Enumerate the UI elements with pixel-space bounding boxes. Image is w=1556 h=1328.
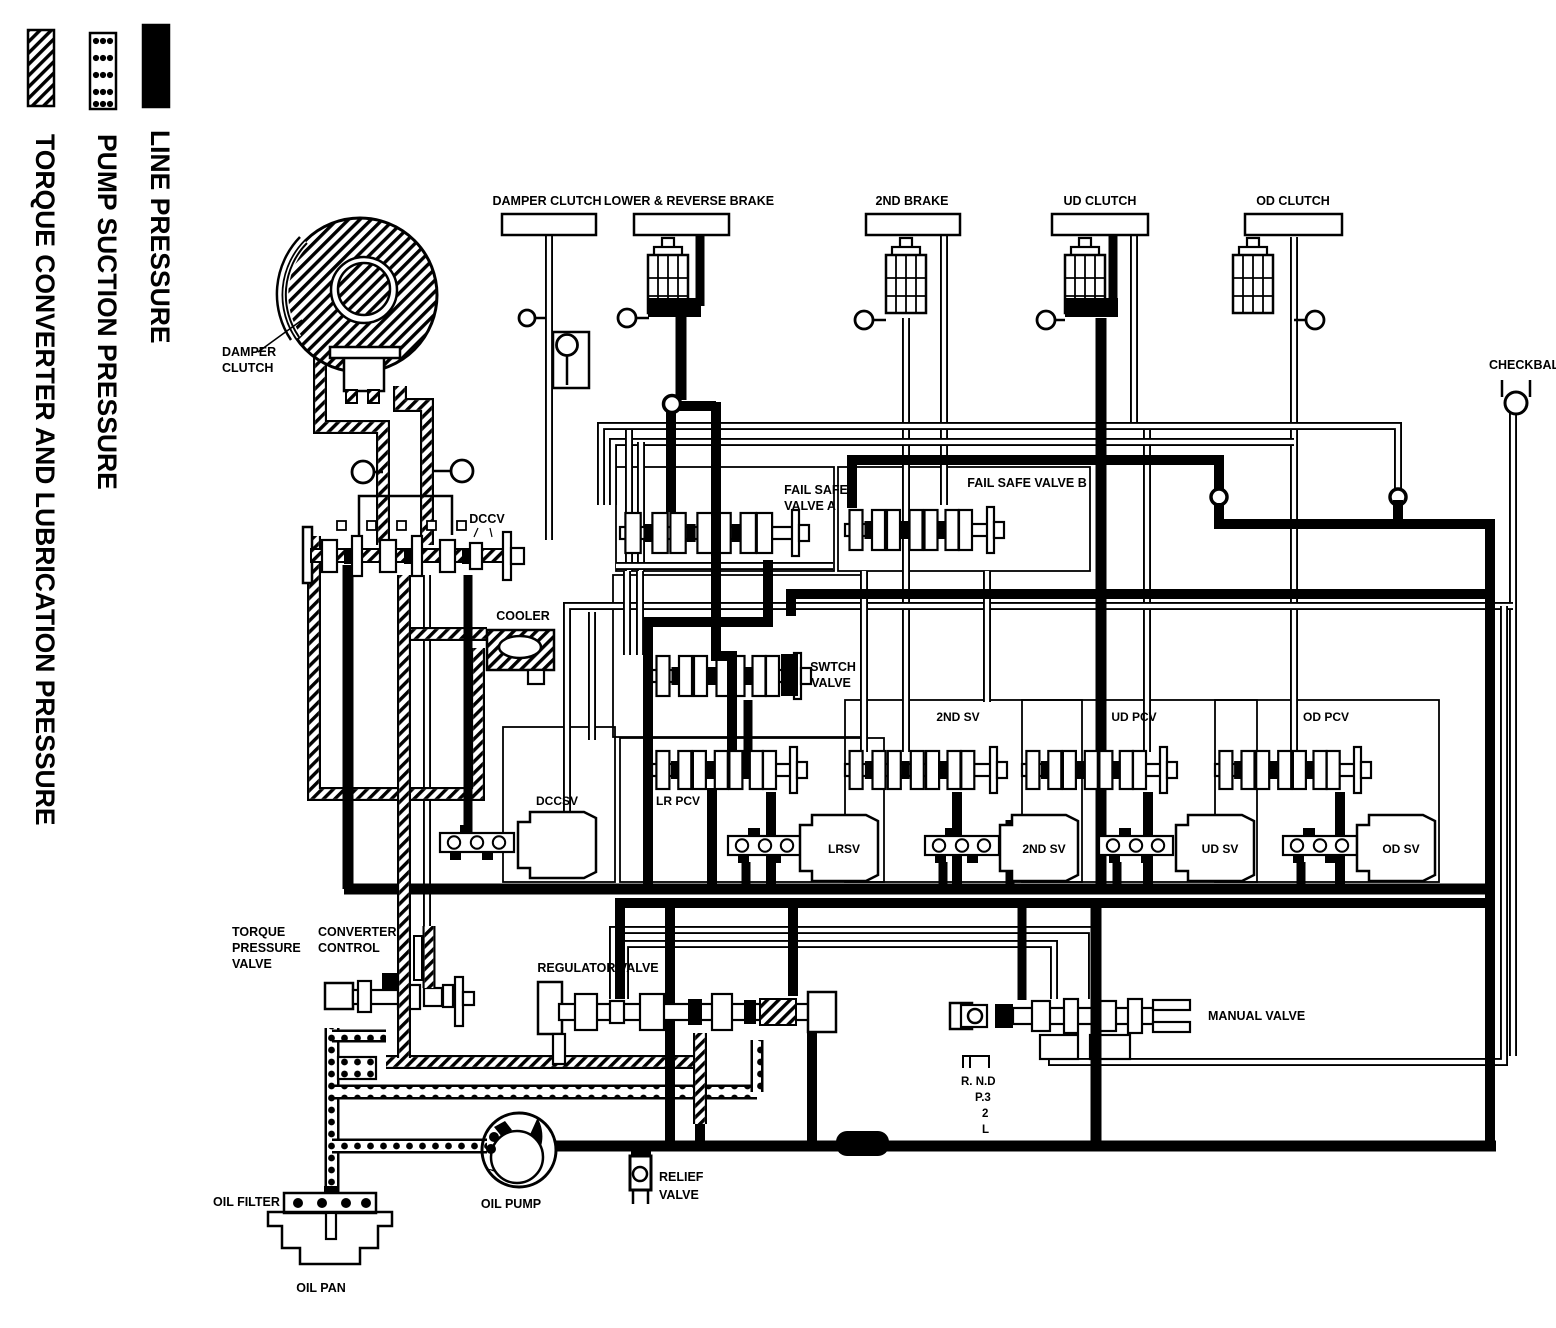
svg-text:SWTCH: SWTCH bbox=[810, 660, 856, 674]
2nd brake box branch pipe bbox=[940, 235, 948, 505]
oil filter bbox=[284, 1186, 376, 1239]
lube pipe to oil pump line bbox=[386, 1055, 694, 1069]
od group drops bbox=[1301, 792, 1340, 886]
label LR PCV bbox=[656, 794, 700, 808]
UD SV bracket bbox=[1099, 828, 1173, 863]
cooler box bbox=[487, 630, 554, 684]
2nd brake feed pipe bbox=[902, 318, 910, 752]
label 2ND BRAKE bbox=[876, 194, 949, 208]
regulator valve bbox=[538, 982, 836, 1064]
ud clutch header box bbox=[1052, 214, 1148, 235]
label RELIEF VALVE bbox=[659, 1170, 704, 1202]
fail safe valve B spool bbox=[845, 507, 1004, 553]
switch valve drop bbox=[744, 700, 753, 764]
svg-text:2ND SV: 2ND SV bbox=[1022, 842, 1065, 856]
tc yoke frame bbox=[359, 496, 452, 535]
valve B to 2nd sv pipe bbox=[864, 571, 987, 752]
switch valve right block feed bbox=[781, 654, 798, 696]
legend label LINE PRESSURE bbox=[145, 130, 175, 344]
2ND SV enclosure box bbox=[845, 700, 1082, 882]
oil pump discharge line bbox=[556, 1141, 1496, 1152]
svg-text:LOWER & REVERSE BRAKE: LOWER & REVERSE BRAKE bbox=[604, 194, 774, 208]
OD SV body bbox=[1357, 815, 1435, 881]
2nd brake checkball bbox=[855, 311, 886, 329]
manual valve line bbox=[1091, 903, 1102, 1146]
svg-text:VALVE: VALVE bbox=[811, 676, 851, 690]
svg-text:COOLER: COOLER bbox=[496, 609, 549, 623]
label DCCV bbox=[469, 512, 505, 537]
damper clutch leader line bbox=[258, 320, 302, 352]
fail safe A right port line bbox=[648, 560, 768, 889]
svg-text:OD CLUTCH: OD CLUTCH bbox=[1256, 194, 1330, 208]
label MANUAL VALVE bbox=[1208, 1009, 1305, 1023]
DCCSV body bbox=[518, 812, 596, 878]
2nd brake solenoid bbox=[886, 238, 926, 313]
label DAMPER CLUTCH header bbox=[492, 194, 601, 208]
manual valve bbox=[950, 999, 1190, 1059]
2nd group drops bbox=[943, 792, 1010, 886]
legend label PUMP SUCTION PRESSURE bbox=[92, 134, 122, 490]
oil pump bbox=[482, 1113, 556, 1187]
svg-text:CLUTCH: CLUTCH bbox=[222, 361, 273, 375]
lower&reverse branch tee bbox=[672, 401, 716, 411]
svg-text:LINE PRESSURE: LINE PRESSURE bbox=[145, 130, 175, 344]
label OD CLUTCH bbox=[1256, 194, 1330, 208]
label UD CLUTCH bbox=[1064, 194, 1137, 208]
ball b stem bbox=[1393, 500, 1403, 524]
label FAIL SAFE VALVE A bbox=[784, 483, 848, 513]
OD SV bracket bbox=[1283, 828, 1357, 863]
line y460 bbox=[852, 460, 1219, 508]
svg-text:DAMPER CLUTCH: DAMPER CLUTCH bbox=[492, 194, 601, 208]
damper clutch checkball bbox=[519, 310, 546, 326]
regulator out drop bbox=[807, 1032, 817, 1146]
oil pan bbox=[268, 1212, 392, 1264]
manual valve port line bbox=[1018, 903, 1027, 1000]
regulator converter black stub bbox=[695, 1122, 705, 1144]
svg-text:PRESSURE: PRESSURE bbox=[232, 941, 301, 955]
svg-text:VALVE: VALVE bbox=[659, 1188, 699, 1202]
label OIL PAN bbox=[296, 1281, 346, 1295]
switch valve enclosure box bbox=[613, 575, 863, 737]
lower & reverse solenoid bbox=[648, 238, 701, 317]
long pipe y606 to DCCSV bbox=[567, 606, 1513, 830]
manual valve line overlay bbox=[1091, 1000, 1102, 1146]
pump suction pipe: to oil pump bbox=[332, 1139, 487, 1154]
svg-text:P.3: P.3 bbox=[975, 1092, 991, 1104]
pump suction pipe: long horizontal bbox=[332, 1085, 757, 1100]
line to fail safe A port2 bbox=[711, 402, 721, 538]
long pipe y426 with end drops bbox=[601, 426, 1398, 505]
ud clutch solenoid drop bbox=[1109, 235, 1118, 308]
lower&reverse line down bbox=[676, 316, 687, 400]
cooler feed pipe vertical bbox=[397, 575, 411, 1058]
regulator to manual valve pipe bbox=[613, 930, 1092, 999]
UD PCV spool bbox=[1022, 747, 1177, 793]
long pipe y442 bbox=[613, 442, 1294, 505]
svg-text:UD SV: UD SV bbox=[1202, 842, 1239, 856]
svg-text:DCCSV: DCCSV bbox=[536, 794, 578, 808]
damper clutch bypass orifice bbox=[553, 332, 589, 388]
cooler branch pipe bbox=[404, 627, 487, 641]
svg-text:LRSV: LRSV bbox=[828, 842, 860, 856]
label FAIL SAFE VALVE B bbox=[967, 476, 1086, 490]
svg-text:R. N.D: R. N.D bbox=[961, 1076, 996, 1088]
DCCV line down bbox=[343, 565, 354, 889]
torque pressure valve spool bbox=[325, 973, 474, 1026]
LR PCV / LRSV enclosure box bbox=[620, 738, 884, 882]
fail safe valve B enclosure box bbox=[838, 467, 1090, 571]
svg-text:TORQUE CONVERTER AND LUBRICATI: TORQUE CONVERTER AND LUBRICATION PRESSUR… bbox=[30, 134, 60, 826]
label SWTCH VALVE bbox=[810, 660, 856, 690]
converter control loop slot bbox=[414, 936, 422, 980]
svg-text:OIL PUMP: OIL PUMP bbox=[481, 1197, 541, 1211]
lower&reverse solenoid drop bbox=[696, 235, 705, 306]
ud group drops bbox=[1117, 792, 1148, 886]
label LOWER & REVERSE BRAKE bbox=[604, 194, 774, 208]
svg-text:UD PCV: UD PCV bbox=[1111, 710, 1156, 724]
svg-text:OD PCV: OD PCV bbox=[1303, 710, 1349, 724]
switch valve spool bbox=[652, 653, 811, 699]
tc breather left bbox=[352, 461, 383, 483]
lower & reverse brake header box bbox=[634, 214, 729, 235]
line pressure overlay through fail safe A bbox=[716, 402, 732, 770]
svg-text:FAIL SAFE: FAIL SAFE bbox=[784, 483, 848, 497]
damper clutch feed pipe bbox=[545, 235, 553, 540]
label REGULATOR VALVE bbox=[537, 961, 658, 975]
pump suction fitting block bbox=[338, 1057, 376, 1079]
regulator feed drop bbox=[665, 903, 675, 1146]
switch valve right block bbox=[781, 654, 798, 696]
ud clutch solenoid bbox=[1065, 238, 1118, 317]
DCCSV enclosure box bbox=[503, 727, 615, 882]
LRSV body bbox=[800, 815, 878, 881]
relief valve bbox=[630, 1146, 651, 1204]
svg-text:OIL FILTER: OIL FILTER bbox=[213, 1195, 280, 1209]
od clutch feed pipe bbox=[1290, 237, 1298, 752]
label R.N.D P.3 2 L bbox=[961, 1076, 996, 1136]
junction ball lower&reverse bbox=[664, 396, 681, 413]
UD PCV / UD SV enclosure box bbox=[1022, 700, 1257, 882]
legend swatch: line pressure bbox=[143, 25, 169, 107]
OD PCV / OD SV enclosure box bbox=[1215, 700, 1439, 882]
2ND SV bracket bbox=[925, 828, 999, 863]
DCCSV bracket bbox=[440, 825, 514, 860]
tc right pipe bbox=[400, 386, 427, 545]
svg-text:LR PCV: LR PCV bbox=[656, 794, 700, 808]
label OIL FILTER bbox=[213, 1195, 280, 1209]
line y524 to right drop bbox=[1219, 503, 1490, 1146]
LRSV bracket bbox=[728, 828, 802, 863]
svg-text:CONTROL: CONTROL bbox=[318, 941, 380, 955]
line through switch valve bbox=[716, 530, 732, 790]
od clutch checkball bbox=[1294, 311, 1324, 329]
label CONVERTER CONTROL bbox=[318, 925, 396, 955]
LR PCV spool bbox=[652, 747, 807, 793]
torque converter (damper clutch) bbox=[277, 218, 437, 403]
svg-text:2: 2 bbox=[982, 1108, 988, 1120]
label DAMPER CLUTCH bbox=[222, 345, 276, 375]
UD SV body bbox=[1176, 815, 1254, 881]
legend swatch: torque converter and lubrication pressure bbox=[28, 30, 54, 106]
svg-text:OIL PAN: OIL PAN bbox=[296, 1281, 346, 1295]
switch valve port pipes bbox=[627, 571, 640, 655]
label OIL PUMP bbox=[481, 1197, 541, 1211]
legend label TORQUE CONVERTER AND LUBRICATION PRESSURE bbox=[30, 134, 60, 826]
svg-text:OD SV: OD SV bbox=[1382, 842, 1419, 856]
svg-text:PUMP SUCTION PRESSURE: PUMP SUCTION PRESSURE bbox=[92, 134, 122, 490]
legend swatch: pump suction pressure bbox=[90, 33, 116, 109]
label DCCSV bbox=[536, 794, 578, 808]
2ND SV body bbox=[1000, 815, 1078, 881]
svg-text:REGULATOR VALVE: REGULATOR VALVE bbox=[537, 961, 658, 975]
DCCSV line down bbox=[464, 575, 473, 838]
tc left pipe bbox=[320, 352, 383, 545]
svg-text:2ND SV: 2ND SV bbox=[936, 710, 979, 724]
converter control pipe bbox=[423, 926, 436, 988]
fail safe valve A enclosure box bbox=[616, 467, 834, 571]
junction ball y497 b bbox=[1390, 489, 1406, 505]
pump suction pipe: regulator drain column bbox=[751, 1040, 764, 1092]
od clutch solenoid bbox=[1233, 238, 1273, 313]
LR PCV drops bbox=[712, 788, 771, 886]
pump suction pipe: vertical to oil filter bbox=[325, 1028, 340, 1198]
ud clutch checkball bbox=[1037, 311, 1065, 329]
svg-text:CONVERTER: CONVERTER bbox=[318, 925, 396, 939]
svg-text:VALVE: VALVE bbox=[232, 957, 272, 971]
2nd brake header box bbox=[866, 214, 960, 235]
DCCV valve bbox=[303, 521, 524, 583]
junction ball y497 a bbox=[1211, 489, 1227, 505]
pipe DCCSV feed 2 bbox=[588, 612, 596, 740]
checkball drop pipe bbox=[1509, 412, 1517, 1056]
svg-text:MANUAL VALVE: MANUAL VALVE bbox=[1208, 1009, 1305, 1023]
ud clutch box branch pipe bbox=[1134, 235, 1147, 752]
2ND SV spool bbox=[845, 747, 1007, 793]
left lube frame bbox=[314, 536, 478, 794]
regulator converter feed pipe bbox=[693, 1033, 707, 1124]
valve A port pipes bbox=[629, 430, 641, 571]
line to fail safe A port1 bbox=[666, 408, 676, 512]
lower & reverse checkball bbox=[618, 309, 649, 327]
checkball top right bbox=[1502, 380, 1530, 414]
pump suction elbow bbox=[332, 1030, 386, 1043]
label UD PCV top bbox=[1111, 710, 1156, 724]
svg-text:FAIL SAFE VALVE B: FAIL SAFE VALVE B bbox=[967, 476, 1086, 490]
svg-text:RELIEF: RELIEF bbox=[659, 1170, 704, 1184]
svg-text:VALVE A: VALVE A bbox=[784, 499, 836, 513]
line y594 bbox=[791, 594, 1490, 616]
OD PCV spool bbox=[1215, 747, 1371, 793]
manual valve loop pipe bbox=[1052, 606, 1504, 1062]
ud clutch long line bbox=[1096, 318, 1107, 889]
main line pressure bus 2 bbox=[620, 903, 1490, 999]
fail safe valve A spool bbox=[620, 510, 809, 556]
damper clutch header box bbox=[502, 214, 596, 235]
discharge capsule bbox=[836, 1131, 889, 1156]
svg-text:TORQUE: TORQUE bbox=[232, 925, 285, 939]
tc breather right bbox=[433, 460, 473, 482]
label 2ND SV top bbox=[936, 710, 979, 724]
svg-text:L: L bbox=[982, 1124, 989, 1136]
svg-text:UD CLUTCH: UD CLUTCH bbox=[1064, 194, 1137, 208]
od clutch header box bbox=[1245, 214, 1342, 235]
svg-text:CHECKBALL: CHECKBALL bbox=[1489, 358, 1556, 372]
svg-text:2ND BRAKE: 2ND BRAKE bbox=[876, 194, 949, 208]
shifter gate symbol bbox=[963, 1056, 989, 1068]
svg-text:DAMPER: DAMPER bbox=[222, 345, 276, 359]
label CHECKBALL bbox=[1489, 358, 1556, 372]
regulator to manual valve pipe 2 bbox=[625, 944, 1054, 999]
regulator right feed bbox=[788, 903, 798, 996]
DCCV down pipe to torque pressure valve bbox=[423, 575, 431, 985]
label OD PCV top bbox=[1303, 710, 1349, 724]
svg-text:DCCV: DCCV bbox=[469, 512, 505, 526]
main line pressure bus 1 bbox=[344, 884, 1490, 895]
label TORQUE PRESSURE VALVE bbox=[232, 925, 301, 971]
valve A box bottom pipe bbox=[616, 562, 833, 570]
label COOLER bbox=[496, 609, 549, 623]
